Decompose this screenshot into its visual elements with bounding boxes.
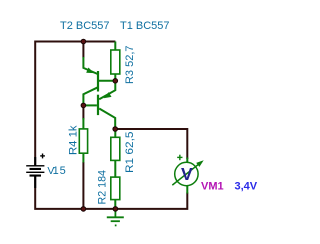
node top rail junction (81, 39, 86, 44)
wire top rail (35, 42, 115, 166)
svg-text:R1 62,5: R1 62,5 (124, 132, 136, 174)
voltmeter VM1 (172, 155, 203, 194)
VM1 top lead (186, 158, 188, 164)
VM1 body circle (175, 162, 198, 185)
T1 emitter (83, 57, 98, 75)
resistor R3 (111, 42, 120, 81)
node rail/R4 junction (81, 207, 86, 212)
resistor R1 (111, 129, 120, 178)
T2 base wire (83, 104, 97, 106)
battery V1 (26, 157, 44, 188)
svg-text:3,4V: 3,4V (235, 181, 258, 193)
transistor T1 (top) (83, 57, 115, 105)
svg-text:V: V (181, 164, 193, 184)
T2 emitter arrow (104, 92, 112, 98)
svg-text:T2 BC557: T2 BC557 (60, 20, 110, 32)
transistor T2 (bottom) (83, 81, 115, 129)
wire R4 bottom to rail (82, 162, 84, 209)
T1 emitter arrow (86, 68, 94, 74)
svg-text:R4 1k: R4 1k (68, 125, 80, 155)
T2 collector (99, 109, 115, 130)
svg-text:T1 BC557: T1 BC557 (120, 20, 170, 32)
node R3/base junction (113, 79, 118, 84)
svg-text:5: 5 (60, 165, 66, 177)
wire base node to R4 (82, 105, 84, 119)
resistor R2 (111, 177, 120, 209)
VM1 bottom lead (186, 186, 188, 194)
wire T1 emitter drop (82, 42, 84, 58)
T1 base bar (97, 71, 99, 92)
VM1 arrow (172, 162, 202, 185)
svg-text:1: 1 (53, 165, 59, 177)
wire bottom rail (35, 177, 187, 209)
svg-text:VM1: VM1 (201, 181, 224, 193)
VM1 plus sign (177, 155, 182, 161)
T1 collector (83, 87, 97, 105)
battery plus sign (40, 154, 45, 159)
svg-text:R2 184: R2 184 (97, 170, 109, 205)
resistor R4 (79, 118, 87, 163)
node collector/R1 junction (113, 127, 118, 132)
node rail/ground junction (113, 207, 118, 212)
T2 emitter (99, 81, 115, 99)
ground (107, 209, 124, 226)
svg-text:R3 52,7: R3 52,7 (124, 46, 136, 85)
node T2 base junction (81, 103, 86, 108)
T1 base wire (99, 80, 115, 82)
wire node to voltmeter (115, 129, 187, 159)
T2 base bar (97, 95, 99, 115)
